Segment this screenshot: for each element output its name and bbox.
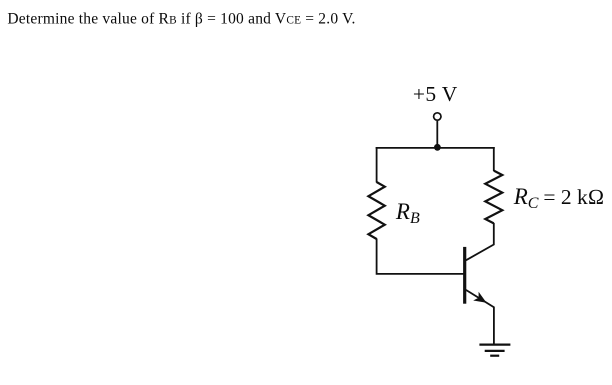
svg-text:+5 V: +5 V [413, 82, 458, 106]
svg-text:= 2 kΩ: = 2 kΩ [543, 185, 604, 209]
svg-text:Determine the value of RB if β: Determine the value of RB if β = 100 and… [7, 11, 355, 28]
